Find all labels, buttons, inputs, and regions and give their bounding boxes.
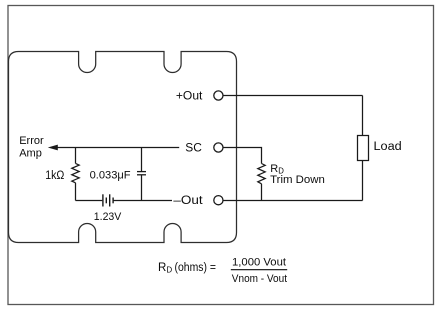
terminal SC bbox=[214, 143, 223, 152]
terminal +Out bbox=[214, 91, 223, 100]
svg-text:Error: Error bbox=[19, 135, 44, 147]
svg-text:1,000 Vout: 1,000 Vout bbox=[232, 256, 286, 268]
resistor RD trim down bbox=[258, 164, 265, 184]
capacitor C1 0.033uF bbox=[137, 172, 146, 175]
svg-text:Vnom - Vout: Vnom - Vout bbox=[232, 273, 287, 285]
svg-text:Trim Down: Trim Down bbox=[270, 174, 325, 186]
module outline U1 (DC-DC converter body with castellated notches) bbox=[9, 52, 237, 243]
svg-text:Amp: Amp bbox=[19, 148, 42, 160]
wire -Out to load bottom bbox=[223, 200, 363, 202]
svg-text:–Out: –Out bbox=[173, 195, 203, 207]
wire +Out to load top bbox=[223, 95, 363, 97]
battery B1 1.23V bbox=[103, 194, 113, 206]
wire bottom rail right segment to -Out label bbox=[113, 200, 172, 202]
svg-text:0.033μF: 0.033μF bbox=[90, 169, 131, 181]
wire R1 bottom to battery rail bbox=[75, 183, 77, 201]
svg-text:Load: Load bbox=[374, 141, 402, 153]
svg-text:+Out: +Out bbox=[176, 90, 203, 102]
wire load right vertical top bbox=[362, 96, 364, 136]
arrow to error amp bbox=[48, 145, 58, 151]
wire SC line internal bbox=[57, 147, 180, 149]
wire SC to Rd branch bbox=[223, 148, 262, 164]
formula fraction bar bbox=[231, 269, 287, 271]
wire load right vertical bottom bbox=[362, 161, 364, 201]
wire down from SC line to R1 bbox=[75, 148, 77, 164]
svg-text:SC: SC bbox=[185, 142, 202, 154]
svg-text:1kΩ: 1kΩ bbox=[45, 170, 65, 182]
svg-text:1.23V: 1.23V bbox=[94, 211, 122, 223]
resistor R1 1kOhm bbox=[72, 163, 79, 182]
terminal -Out bbox=[214, 196, 223, 205]
wire capacitor bottom to bottom rail bbox=[141, 175, 143, 201]
wire down from SC line to capacitor C1 bbox=[141, 148, 143, 172]
load resistor box bbox=[358, 136, 369, 161]
wire Rd bottom to -Out rail bbox=[261, 184, 263, 201]
svg-text:(ohms) =: (ohms) = bbox=[175, 262, 217, 274]
wire bottom rail left segment bbox=[76, 200, 103, 202]
